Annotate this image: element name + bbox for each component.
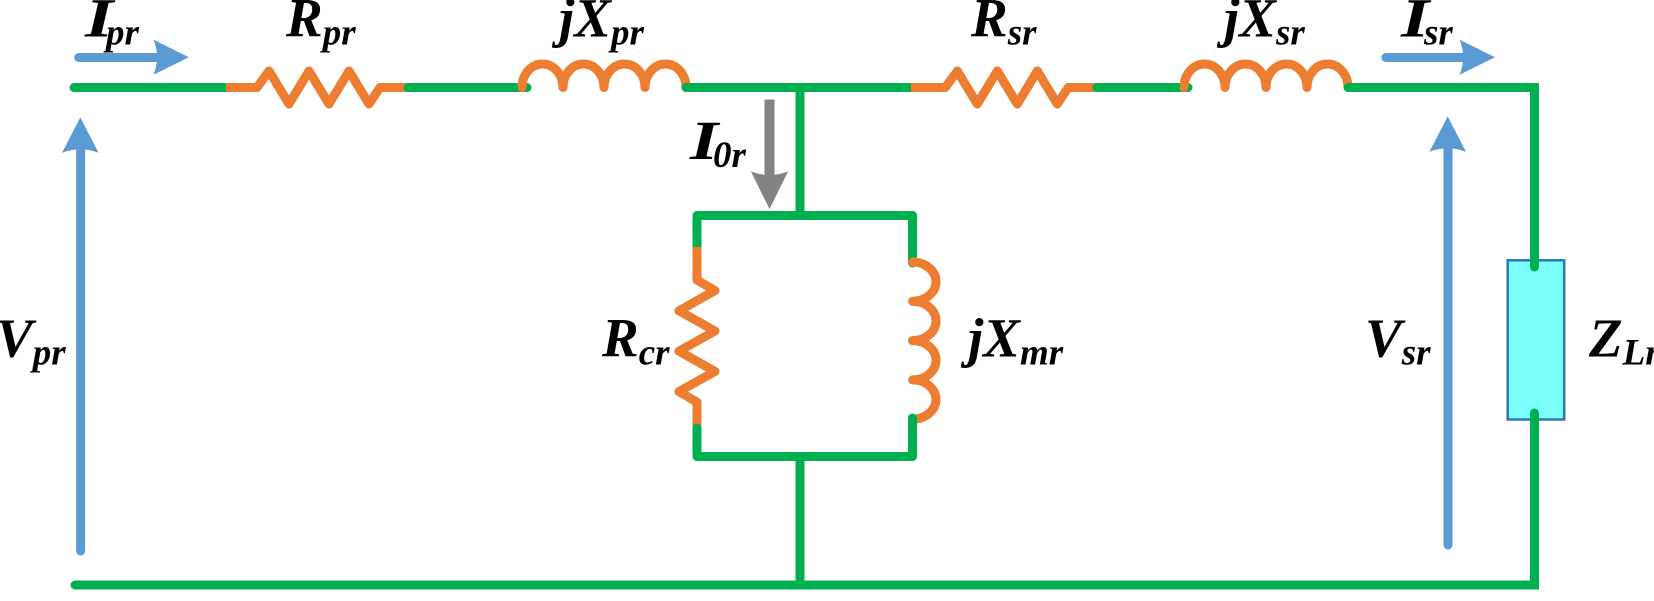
load impedance Z_Lr xyxy=(1508,260,1565,419)
shunt box top wire xyxy=(697,211,913,220)
shunt left branch top lead xyxy=(693,216,702,249)
voltage arrow V_pr xyxy=(62,117,99,551)
shunt box bottom wire xyxy=(697,452,913,461)
shunt left branch bottom lead xyxy=(693,428,702,457)
svg-text:pr: pr xyxy=(103,13,140,54)
current arrow I_pr xyxy=(79,40,189,75)
wire middle vertical from shunt box to bottom rail xyxy=(796,457,805,586)
wire top-left segment xyxy=(74,83,227,92)
svg-text:0r: 0r xyxy=(713,135,747,176)
shunt right branch bottom lead xyxy=(908,418,917,457)
wire top-right segment and right drop to load xyxy=(1348,88,1535,269)
inductor L1 jX_pr xyxy=(522,64,686,88)
resistor R1 R_pr xyxy=(226,71,408,104)
current arrow I_sr xyxy=(1386,40,1495,75)
inductor L2 jX_sr xyxy=(1184,64,1348,88)
inductor L3 jX_mr xyxy=(913,262,937,419)
wire middle vertical from top node to shunt box xyxy=(796,88,805,216)
wire between jX_pr and R_sr with node junction xyxy=(686,83,911,92)
wire between R_pr and jX_pr xyxy=(408,83,527,92)
resistor R2 R_sr xyxy=(911,71,1097,104)
wire between R_sr and jX_sr xyxy=(1097,83,1188,92)
svg-text:sr: sr xyxy=(1423,13,1453,54)
wire stub into load top xyxy=(1530,255,1539,267)
voltage arrow V_sr xyxy=(1429,116,1466,545)
wire stub into load bottom xyxy=(1530,413,1539,428)
shunt right branch top lead xyxy=(908,216,917,264)
wire load bottom to bottom rail and bottom rail xyxy=(75,412,1535,585)
resistor R3 R_cr xyxy=(679,247,715,429)
current arrow I_0r (magnetizing branch) xyxy=(751,100,788,210)
